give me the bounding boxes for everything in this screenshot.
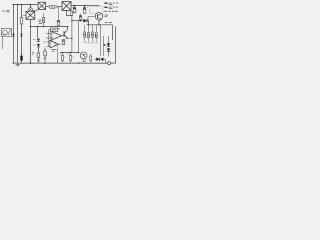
wire long mid column	[71, 16, 73, 53]
resistor R8	[44, 48, 46, 52]
wire diode pair	[95, 59, 106, 63]
wire IC1b output branch	[57, 49, 59, 63]
wire top rail	[13, 4, 39, 6]
resistor R15	[62, 53, 64, 56]
wire zener drop	[37, 27, 39, 38]
wire mid column	[78, 21, 80, 53]
opamp IC1a	[51, 31, 62, 40]
wire transformer secondary right	[21, 5, 23, 63]
bridge rectifier B3	[26, 11, 35, 19]
wire col 103	[103, 36, 105, 56]
resistor R5	[50, 28, 57, 32]
wire transformer secondary left	[13, 5, 15, 63]
capacitor C7	[58, 7, 60, 21]
ground symbol	[16, 65, 20, 66]
opamp IC1b	[50, 40, 59, 48]
label IC1b	[52, 50, 57, 52]
label meter	[82, 60, 87, 61]
wire opamp slash	[52, 41, 58, 48]
wire transformer secondary mid	[17, 5, 19, 63]
label node marks	[44, 42, 46, 44]
capacitor C1	[72, 6, 76, 13]
label resistor values	[84, 41, 98, 44]
relay Re1 box	[2, 29, 12, 37]
resistor network drops	[85, 25, 97, 32]
wire terminal to right branch	[111, 62, 116, 64]
node rail junctions	[13, 4, 31, 5]
diode D6	[108, 36, 110, 43]
transistor T2	[63, 31, 66, 36]
wire IC1a inputs	[46, 33, 51, 38]
resistor R12	[92, 32, 94, 37]
diode D7	[107, 48, 110, 51]
diode D5	[83, 19, 86, 23]
wire T2 emitter	[68, 37, 72, 39]
wire B2 to regulator rail	[71, 5, 100, 7]
wire B2 minus output	[67, 10, 72, 15]
legend row 3	[104, 10, 117, 12]
zener D3	[37, 39, 40, 42]
wire relay tail	[2, 36, 4, 49]
legend row 2	[104, 6, 107, 8]
bridge rectifier B2	[62, 2, 71, 11]
capacitor C6	[80, 14, 82, 21]
wire lower rail	[60, 52, 79, 54]
inductor L1	[49, 5, 58, 8]
resistor R11	[88, 33, 90, 38]
label Vo	[105, 22, 112, 24]
wire right branch inner	[112, 25, 114, 40]
meter M1	[80, 52, 87, 59]
ground bus	[12, 62, 108, 64]
wire feedback	[49, 33, 51, 46]
wire D5 to node	[87, 21, 88, 25]
bridge rectifier B1	[38, 2, 46, 9]
label T1	[105, 15, 109, 17]
wire left column	[30, 27, 32, 63]
diode pair D8 D9	[96, 57, 99, 61]
label near left column	[32, 53, 35, 55]
label B3	[39, 20, 43, 24]
resistor R13	[95, 33, 97, 38]
label R15 R16	[59, 54, 73, 57]
resistor R2	[43, 13, 45, 27]
wire lamp to B1	[32, 9, 37, 11]
capacitor C5	[62, 39, 65, 44]
transistor T1 (circled)	[98, 13, 100, 14]
label 230V mains	[2, 11, 10, 12]
wire col 100	[100, 25, 102, 56]
resistor R1	[20, 18, 23, 25]
resistor R10	[84, 32, 86, 37]
wire mid rail	[31, 26, 68, 28]
regulator outline box	[90, 6, 103, 13]
wire to diode D5	[72, 20, 83, 22]
legend row 1	[104, 2, 107, 4]
wire B3 bottom to mid rail	[30, 19, 32, 26]
wire T2 collector	[67, 27, 69, 30]
capacitor C2	[83, 6, 88, 14]
wire T1 base	[88, 17, 95, 21]
wire IC1a output	[62, 35, 64, 37]
trimmer P1	[37, 53, 40, 58]
wire right branch outer	[115, 27, 117, 64]
wire L1 to B2	[57, 6, 62, 8]
label zeners	[33, 40, 36, 46]
wire output node	[87, 24, 113, 26]
wire to B3	[23, 14, 26, 16]
label relay	[3, 34, 6, 36]
terminal output	[108, 62, 111, 65]
wire zener to trimmer	[37, 47, 39, 53]
resistor R16	[70, 53, 72, 56]
diode/cap on secondary bottom	[20, 56, 22, 61]
node dot	[103, 44, 105, 46]
resistor R17	[90, 54, 92, 56]
fuse F2	[71, 12, 73, 16]
node bus dots	[30, 62, 79, 63]
zener D4	[37, 44, 40, 47]
diode D2	[20, 34, 22, 37]
diode D1	[12, 34, 14, 37]
wire T1 emitter down	[98, 20, 100, 25]
lamp La1	[30, 5, 32, 8]
wire B1 to L1	[46, 5, 49, 7]
